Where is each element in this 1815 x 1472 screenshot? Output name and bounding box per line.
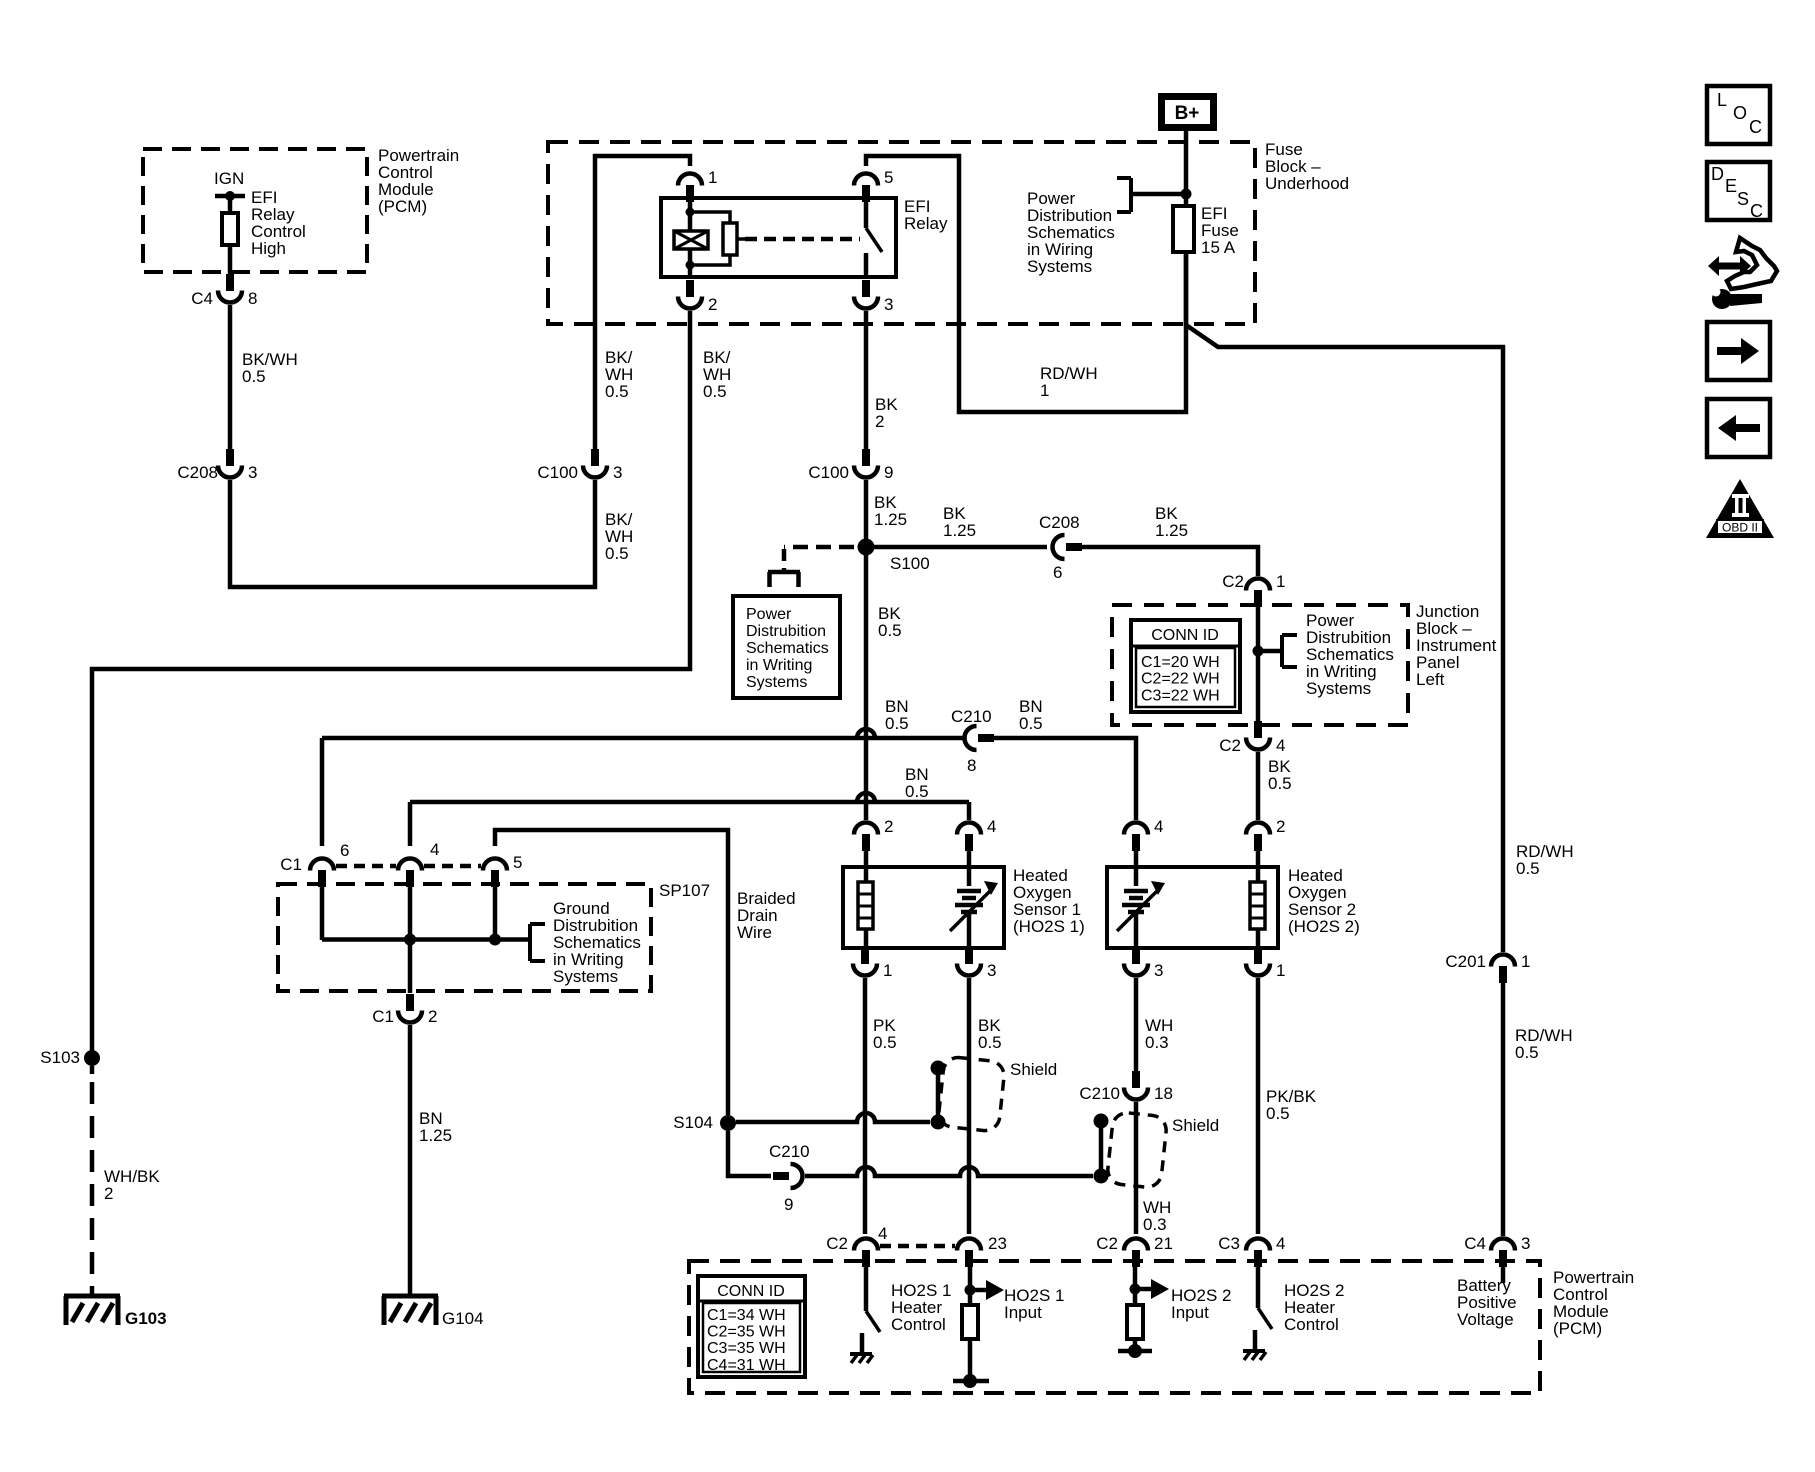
svg-text:4: 4 xyxy=(987,817,996,836)
svg-text:6: 6 xyxy=(1053,563,1062,582)
svg-text:5: 5 xyxy=(884,168,893,187)
wire HO2S2-1 to C3-4 PK/BK xyxy=(1256,978,1261,1234)
svg-text:in Writing: in Writing xyxy=(746,657,812,674)
wire C4-8 to C208-3 BK/WH xyxy=(228,305,233,450)
svg-text:S104: S104 xyxy=(673,1113,713,1132)
svg-text:O: O xyxy=(1733,103,1747,123)
svg-text:0.5: 0.5 xyxy=(878,621,902,640)
svg-text:C: C xyxy=(1750,201,1763,221)
icon OBD II triangle xyxy=(1706,479,1774,538)
svg-text:(PCM): (PCM) xyxy=(1553,1319,1602,1338)
HO2S2 input resistor xyxy=(1127,1305,1143,1339)
svg-text:C4=31 WH: C4=31 WH xyxy=(707,1357,786,1374)
svg-text:3: 3 xyxy=(884,295,893,314)
wire C1-6 into box xyxy=(320,885,325,940)
junction dot on B+ feed xyxy=(1181,189,1192,200)
icon back arrow box xyxy=(1707,399,1770,457)
HO2S2 pin 4 connector xyxy=(1132,834,1140,851)
HO2S2 EMF arrow xyxy=(1117,890,1158,931)
svg-text:C2=35 WH: C2=35 WH xyxy=(707,1324,786,1341)
svg-text:Input: Input xyxy=(1004,1303,1042,1322)
svg-text:1.25: 1.25 xyxy=(419,1126,452,1145)
svg-text:Power: Power xyxy=(746,606,792,623)
Power Distrubition Schematics in Writing Systems box xyxy=(733,596,840,698)
relay switch output wire xyxy=(864,253,869,277)
wire S103 tail xyxy=(90,1066,95,1074)
svg-text:0.5: 0.5 xyxy=(1516,859,1540,878)
svg-text:4: 4 xyxy=(1276,736,1285,755)
svg-text:1.25: 1.25 xyxy=(1155,521,1188,540)
svg-text:C1: C1 xyxy=(372,1007,394,1026)
svg-text:S: S xyxy=(1737,189,1749,209)
svg-text:Systems: Systems xyxy=(1306,679,1371,698)
svg-text:Input: Input xyxy=(1171,1303,1209,1322)
svg-text:Shield: Shield xyxy=(1010,1060,1057,1079)
svg-text:9: 9 xyxy=(884,463,893,482)
svg-text:C2: C2 xyxy=(1222,572,1244,591)
svg-text:3: 3 xyxy=(613,463,622,482)
ground G104 xyxy=(382,1294,438,1299)
bus junction dot C1-5 xyxy=(489,934,501,946)
svg-text:0.3: 0.3 xyxy=(1143,1215,1167,1234)
ground bus xyxy=(322,937,530,942)
HO2S1 pin 3 connector xyxy=(965,947,973,964)
svg-text:CONN ID: CONN ID xyxy=(1151,627,1219,644)
wire C1-5 into box xyxy=(493,885,498,940)
wire C208-6 to C2-1 BK xyxy=(1082,547,1258,576)
svg-text:4: 4 xyxy=(430,840,439,859)
svg-text:Systems: Systems xyxy=(746,674,807,691)
wire S100 down to HO2S1 pin 2 BK/BN xyxy=(864,555,869,820)
connector C2 pin 4 (junction block bottom) xyxy=(1254,721,1262,738)
svg-text:S100: S100 xyxy=(890,554,930,573)
svg-text:0.5: 0.5 xyxy=(978,1033,1002,1052)
wire IGN dot to resistor xyxy=(228,196,233,213)
svg-text:2: 2 xyxy=(1276,817,1285,836)
wire resistor to reference xyxy=(1133,1339,1138,1348)
icon forward arrow box xyxy=(1707,322,1770,380)
svg-text:Systems: Systems xyxy=(553,967,618,986)
HO2S2 input network xyxy=(1133,1265,1138,1303)
relay resistor tap xyxy=(737,237,745,241)
svg-text:B+: B+ xyxy=(1175,103,1200,124)
svg-text:5: 5 xyxy=(513,853,522,872)
shield 1 connection dot upper xyxy=(931,1061,946,1076)
relay coil junction dot bottom xyxy=(686,261,695,270)
HO2S1 EMF arrow xyxy=(950,890,991,931)
svg-text:OBD II: OBD II xyxy=(1722,521,1758,535)
shield 2 drop wire xyxy=(1099,1121,1104,1176)
svg-text:0.5: 0.5 xyxy=(605,544,629,563)
ground (HO2S1 heater control) xyxy=(850,1352,872,1356)
PCM box (Powertrain Control Module, top left) xyxy=(143,149,367,272)
svg-text:C1=34 WH: C1=34 WH xyxy=(707,1307,786,1324)
wire through junction block xyxy=(1256,607,1261,723)
HO2S1 pin 2 connector xyxy=(862,834,870,851)
HO2S2 sense element (variable EMF) xyxy=(1134,851,1139,886)
B+ terminal box xyxy=(1162,97,1214,128)
wire C100-3 up to relay pin 1 xyxy=(595,156,690,450)
svg-text:0.5: 0.5 xyxy=(242,367,266,386)
svg-text:0.5: 0.5 xyxy=(1019,714,1043,733)
svg-text:Control: Control xyxy=(1284,1315,1339,1334)
wire C210-18 to C2-21 WH xyxy=(1134,1102,1139,1234)
junction dot to note bracket xyxy=(1253,646,1264,657)
connector C4 pin 3 (PCM) xyxy=(1499,1250,1507,1267)
wire HO2S2-3 to C210-18 WH xyxy=(1134,978,1139,1072)
HO2S2 pin 1 connector xyxy=(1254,947,1262,964)
wire relay pin2 to S103 BK/WH xyxy=(92,311,690,1051)
battery positive voltage stub xyxy=(1501,1265,1506,1283)
svg-text:C1: C1 xyxy=(280,855,302,874)
svg-text:IGN: IGN xyxy=(214,169,244,188)
HO2S2 pin 3 connector xyxy=(1132,947,1140,964)
HO2S2 input arrow xyxy=(1139,1287,1153,1292)
svg-text:Systems: Systems xyxy=(1027,257,1092,276)
svg-text:0.5: 0.5 xyxy=(885,714,909,733)
svg-text:6: 6 xyxy=(340,841,349,860)
connector C1 pin 6 xyxy=(318,870,326,887)
svg-text:9: 9 xyxy=(784,1195,793,1214)
svg-text:1: 1 xyxy=(1276,961,1285,980)
svg-text:2: 2 xyxy=(104,1184,113,1203)
svg-text:G103: G103 xyxy=(125,1309,167,1328)
Heated Oxygen Sensor 1 box xyxy=(843,867,1004,948)
HO2S2 heater element xyxy=(1256,851,1261,882)
ground (HO2S2 heater control) xyxy=(1243,1349,1265,1353)
svg-text:Relay: Relay xyxy=(904,214,948,233)
svg-text:1.25: 1.25 xyxy=(874,510,907,529)
connector C1 pin 2 xyxy=(406,994,414,1011)
svg-text:1: 1 xyxy=(1521,952,1530,971)
svg-text:C4: C4 xyxy=(191,289,213,308)
svg-text:Shield: Shield xyxy=(1172,1116,1219,1135)
connector C100 pin 9 xyxy=(862,449,870,466)
svg-text:2: 2 xyxy=(884,817,893,836)
svg-text:C100: C100 xyxy=(537,463,578,482)
ground G103 xyxy=(64,1294,120,1299)
PCM bottom dashed box xyxy=(689,1261,1540,1393)
svg-text:Wire: Wire xyxy=(737,923,772,942)
svg-text:3: 3 xyxy=(248,463,257,482)
svg-text:C: C xyxy=(1749,117,1762,137)
relay switch blade xyxy=(866,228,882,252)
svg-text:8: 8 xyxy=(967,756,976,775)
svg-text:4: 4 xyxy=(1154,817,1163,836)
svg-text:3: 3 xyxy=(1521,1234,1530,1253)
shield 1 connection dot lower xyxy=(931,1115,946,1130)
svg-text:23: 23 xyxy=(988,1234,1007,1253)
BN wire line1 C1-6 to C210-8 xyxy=(322,729,963,738)
svg-text:1: 1 xyxy=(883,961,892,980)
wire C201-1 to C4-3 RD/WH xyxy=(1501,983,1506,1236)
svg-text:0.5: 0.5 xyxy=(703,382,727,401)
resistor EFI Relay Control High driver xyxy=(222,213,238,245)
wire resistor to C4 pin 8 xyxy=(228,245,233,274)
connector C201 pin 1 xyxy=(1499,966,1507,983)
svg-text:Left: Left xyxy=(1416,670,1445,689)
dashed connector line C2 xyxy=(880,1244,955,1249)
svg-text:1: 1 xyxy=(708,168,717,187)
svg-text:2: 2 xyxy=(875,412,884,431)
svg-text:Control: Control xyxy=(891,1315,946,1334)
relay pin 3 connector xyxy=(862,280,870,297)
connector C1 pin 4 xyxy=(406,870,414,887)
svg-text:2: 2 xyxy=(708,295,717,314)
svg-text:21: 21 xyxy=(1154,1234,1173,1253)
svg-text:0.5: 0.5 xyxy=(1515,1043,1539,1062)
Junction Block - Instrument Panel Left dashed box xyxy=(1112,605,1408,725)
IGN junction dot xyxy=(225,191,235,201)
svg-text:C3=22 WH: C3=22 WH xyxy=(1141,687,1220,704)
IGN feed bar xyxy=(215,194,245,199)
wire C100-9 to splice S100 xyxy=(864,480,869,547)
svg-text:C201: C201 xyxy=(1445,952,1486,971)
svg-text:C2: C2 xyxy=(1096,1234,1118,1253)
relay resistor xyxy=(723,223,737,255)
shield 2 connection dot lower xyxy=(1094,1169,1109,1184)
icon DESC box xyxy=(1707,162,1770,220)
drain wire S104 down to C210-9 xyxy=(728,1131,771,1176)
shield 1 drop wire xyxy=(936,1068,941,1122)
HO2S1 heater control switch xyxy=(864,1265,869,1311)
svg-text:0.5: 0.5 xyxy=(873,1033,897,1052)
connector C210 pin 18 xyxy=(1132,1071,1140,1088)
braided drain wire C1-5 to S104 xyxy=(495,830,728,1115)
icon diagnostic arrows and wrench xyxy=(1727,238,1777,289)
relay coil (crossed box) xyxy=(674,231,708,249)
HO2S2 pin 2 connector xyxy=(1254,834,1262,851)
connector C100 pin 3 xyxy=(591,449,599,466)
fuse EFI 15A xyxy=(1173,206,1194,252)
svg-text:3: 3 xyxy=(1154,961,1163,980)
svg-text:S103: S103 xyxy=(40,1048,80,1067)
connector C2 pin 1 xyxy=(1254,590,1262,607)
connector C2 pin 23 (PCM) xyxy=(965,1250,973,1267)
wire C208-3 down right up to C100-3 xyxy=(230,480,595,587)
svg-text:15 A: 15 A xyxy=(1201,238,1236,257)
svg-text:4: 4 xyxy=(1276,1234,1285,1253)
wire C1-4 through box xyxy=(408,885,413,993)
svg-text:C208: C208 xyxy=(1039,513,1080,532)
bracket to ground note xyxy=(528,924,532,961)
HO2S1 heater element xyxy=(864,851,869,882)
wire resistor to reference xyxy=(968,1339,973,1378)
svg-text:0.3: 0.3 xyxy=(1145,1033,1169,1052)
svg-text:C2: C2 xyxy=(826,1234,848,1253)
wire C210-8 to HO2S2 pin 4 BN xyxy=(994,738,1136,820)
svg-text:C3=35 WH: C3=35 WH xyxy=(707,1340,786,1357)
splice S100 xyxy=(858,539,875,556)
wire relay pin3 to C100-9 BK xyxy=(864,311,869,450)
Heated Oxygen Sensor 2 box xyxy=(1107,867,1278,948)
svg-text:1: 1 xyxy=(1040,381,1049,400)
svg-text:C210: C210 xyxy=(1079,1084,1120,1103)
svg-text:2: 2 xyxy=(428,1007,437,1026)
svg-text:D: D xyxy=(1711,164,1724,184)
splice S103 xyxy=(84,1050,100,1066)
svg-text:C3: C3 xyxy=(1218,1234,1240,1253)
wire HO2S1-1 to C2-4 PK xyxy=(863,978,868,1234)
connector C1 pin 5 xyxy=(491,870,499,887)
connector C208 pin 3 xyxy=(226,449,234,466)
BN wire line2 C1-4 to HO2S1 pin 4 xyxy=(410,793,969,802)
svg-text:0.5: 0.5 xyxy=(605,382,629,401)
svg-text:1.25: 1.25 xyxy=(943,521,976,540)
svg-text:C4: C4 xyxy=(1464,1234,1486,1253)
svg-text:G104: G104 xyxy=(442,1309,484,1328)
svg-text:L: L xyxy=(1717,90,1727,110)
relay coil wire bottom xyxy=(688,249,693,277)
connector C3 pin 4 (PCM) xyxy=(1254,1250,1262,1267)
svg-text:C2: C2 xyxy=(1219,736,1241,755)
drain wire C210-9 to shield 2 xyxy=(805,1167,1093,1176)
connector C208 pin 6 xyxy=(1066,543,1082,551)
reference terminal (HO2S2 input) xyxy=(1118,1349,1152,1354)
relay switch common wire xyxy=(864,198,869,228)
relay coil junction dot top xyxy=(686,208,695,217)
svg-text:C1=20 WH: C1=20 WH xyxy=(1141,654,1220,671)
relay armature dashed link xyxy=(745,237,860,242)
connector C2 pin 21 (PCM) xyxy=(1132,1250,1140,1267)
dashed stub S100 to power distribution note xyxy=(784,545,854,550)
svg-text:SP107: SP107 xyxy=(659,881,710,900)
wire relay pin5 to EFI fuse RD/WH xyxy=(866,156,1186,412)
svg-text:High: High xyxy=(251,239,286,258)
svg-text:0.5: 0.5 xyxy=(905,782,929,801)
EFI relay box xyxy=(661,198,896,277)
connector C210 pin 9 xyxy=(773,1172,789,1180)
HO2S1 input resistor xyxy=(962,1305,978,1339)
connector C210 pin 8 xyxy=(978,734,994,742)
svg-text:(HO2S 2): (HO2S 2) xyxy=(1288,917,1360,936)
bus junction dot C1-4 xyxy=(404,934,416,946)
relay pin 1 connector xyxy=(686,185,694,202)
drain wire S104 to shield 1 xyxy=(736,1113,930,1122)
svg-text:4: 4 xyxy=(878,1224,887,1243)
reference terminal (HO2S1 input) xyxy=(953,1379,989,1384)
Ground Distrubition dashed box xyxy=(278,884,651,991)
svg-text:C210: C210 xyxy=(769,1142,810,1161)
wire S100 right to C208-6 BK xyxy=(874,545,1047,550)
bracket to power distribution note xyxy=(1280,635,1284,667)
wire HO2S1-3 to C2-23 BK xyxy=(967,978,972,1234)
svg-text:Schematics: Schematics xyxy=(746,640,829,657)
HO2S1 input arrow xyxy=(974,1288,988,1293)
svg-text:0.5: 0.5 xyxy=(1266,1104,1290,1123)
svg-text:C210: C210 xyxy=(951,707,992,726)
svg-text:E: E xyxy=(1725,176,1737,196)
splice S104 xyxy=(720,1115,736,1131)
svg-text:Distrubition: Distrubition xyxy=(746,623,826,640)
shield 2 connection dot upper xyxy=(1094,1114,1109,1129)
svg-text:(PCM): (PCM) xyxy=(378,197,427,216)
svg-text:Underhood: Underhood xyxy=(1265,174,1349,193)
shield 2 dashed tube xyxy=(1106,1111,1167,1188)
dashed wire S103 to G103 WH/BK xyxy=(90,1082,95,1294)
svg-text:3: 3 xyxy=(987,961,996,980)
svg-text:C208: C208 xyxy=(177,463,218,482)
svg-text:Voltage: Voltage xyxy=(1457,1310,1514,1329)
wire C1-2 to G104 BN xyxy=(408,1025,413,1294)
HO2S1 input network xyxy=(968,1265,973,1305)
svg-text:1: 1 xyxy=(1276,572,1285,591)
relay parallel resistor branch xyxy=(690,212,730,223)
bracket to power distribution note xyxy=(1129,178,1133,212)
svg-text:(HO2S 1): (HO2S 1) xyxy=(1013,917,1085,936)
svg-text:C2=22 WH: C2=22 WH xyxy=(1141,671,1220,688)
svg-text:CONN ID: CONN ID xyxy=(717,1283,785,1300)
shield 1 dashed tube xyxy=(938,1056,1006,1132)
dashed connector line C1 xyxy=(336,864,396,869)
connector C2 pin 4 (PCM) xyxy=(862,1250,870,1267)
svg-text:8: 8 xyxy=(248,289,257,308)
HO2S1 sense element (variable EMF) xyxy=(967,851,972,886)
power distribution pointer symbol xyxy=(768,570,800,575)
wire C2-4 to HO2S2 pin 2 BK xyxy=(1256,752,1261,820)
connector C4 pin 8 xyxy=(226,274,234,291)
relay pin 2 connector xyxy=(686,280,694,297)
CONN ID table (junction block) xyxy=(1131,620,1240,712)
svg-text:C100: C100 xyxy=(808,463,849,482)
HO2S2 heater control switch xyxy=(1256,1265,1261,1308)
svg-text:18: 18 xyxy=(1154,1084,1173,1103)
svg-text:0.5: 0.5 xyxy=(1268,774,1292,793)
CONN ID table (PCM) xyxy=(698,1276,805,1377)
relay coil wire top xyxy=(688,198,693,231)
icon LOC box xyxy=(1707,86,1770,144)
relay pin 5 connector xyxy=(862,185,870,202)
wire B+ to EFI fuse xyxy=(1184,130,1189,208)
HO2S1 pin 4 connector xyxy=(965,834,973,851)
wire fuse to RD/WH drop diagonal xyxy=(1186,252,1503,952)
Fuse Block - Underhood dashed box xyxy=(548,142,1255,324)
HO2S1 pin 1 connector xyxy=(861,947,869,964)
